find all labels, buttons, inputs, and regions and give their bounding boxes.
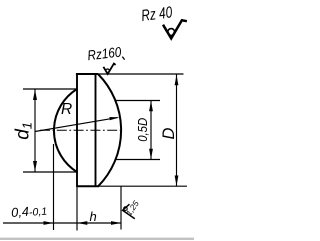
extension line bottom 0,5D xyxy=(116,159,161,161)
arrow h right-pointing xyxy=(111,221,121,225)
svg-text:R: R xyxy=(61,101,72,118)
roughness symbol 1,25 check xyxy=(123,204,135,219)
extension line bottom d1 xyxy=(23,171,77,173)
extension line bottom D xyxy=(99,185,187,187)
dimension line d1 xyxy=(34,90,36,172)
arrow shared left-pointing xyxy=(77,221,87,225)
arrow d1 bottom xyxy=(33,161,37,172)
extension line left sagitta xyxy=(53,144,55,230)
roughness symbol Rz40 circle xyxy=(168,29,175,36)
dimension line bottom h xyxy=(3,222,121,224)
svg-text:0,5D: 0,5D xyxy=(136,118,150,142)
lens right convex surface arc xyxy=(98,74,121,186)
lens inner cylinder edge xyxy=(95,74,97,186)
arrow D bottom xyxy=(175,176,179,187)
centerline axis xyxy=(40,129,122,131)
lens top edge xyxy=(76,73,98,75)
leader line R xyxy=(35,118,118,132)
roughness symbol Rz40 check xyxy=(163,20,187,38)
extension line cylinder left bottom xyxy=(76,187,78,231)
extension line right apex bottom xyxy=(120,186,122,229)
svg-text:D: D xyxy=(160,128,178,140)
roughness symbol Rz160 check xyxy=(103,64,115,74)
dimension line 0,5D xyxy=(150,101,152,160)
scan shadow bottom edge xyxy=(0,238,194,240)
svg-text:h: h xyxy=(90,209,97,224)
roughness symbol 1,25 circle xyxy=(124,207,128,211)
extension line top D xyxy=(98,73,184,75)
dimension line D xyxy=(176,75,178,187)
arrow 0,5D bottom xyxy=(149,149,153,160)
arrow R leader xyxy=(109,117,119,120)
arrow d1 top xyxy=(33,90,37,101)
arrow sagitta right-pointing xyxy=(44,221,54,225)
lens left convex surface arc xyxy=(54,89,77,172)
extension line top 0,5D xyxy=(116,100,160,102)
comma tick after Rz160 xyxy=(122,57,124,60)
extension line top d1 xyxy=(23,88,77,90)
lens bottom edge xyxy=(77,185,99,187)
roughness symbol Rz160 circle xyxy=(106,69,110,73)
arrow D top xyxy=(175,75,179,86)
arrow 0,5D top xyxy=(149,101,153,112)
lens left cylinder edge xyxy=(76,73,78,187)
